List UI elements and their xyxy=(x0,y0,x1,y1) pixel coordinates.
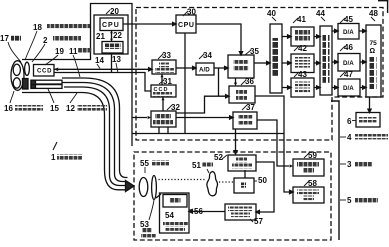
leader 11 xyxy=(73,55,80,77)
wire CPU30 to box35 top xyxy=(196,24,241,52)
svg-text:44: 44 xyxy=(316,9,325,18)
svg-text:14: 14 xyxy=(95,56,104,65)
box 35 digital processing xyxy=(228,55,254,78)
svg-text:45: 45 xyxy=(344,15,353,24)
cable bundle bottom elbow arcs xyxy=(110,170,127,186)
box 57 text xyxy=(228,207,252,212)
svg-text:D/A: D/A xyxy=(343,29,354,36)
arrow into 36 xyxy=(226,95,229,98)
box 37 text xyxy=(238,115,253,120)
box 50 lamp power xyxy=(234,178,254,193)
arrow into A/D xyxy=(193,66,196,69)
wire branch from AD bus down to 36 input xyxy=(218,68,220,96)
arrow into 32 left xyxy=(148,116,151,119)
leader 17 xyxy=(8,42,21,62)
insertion tube bottom wall xyxy=(22,93,126,190)
wires 41,42,43 to 44 xyxy=(314,37,317,88)
svg-text:13: 13 xyxy=(112,55,121,64)
box 58 mode change switch xyxy=(293,187,324,203)
cable 3 vertical line xyxy=(331,101,339,240)
rotating filter 53 xyxy=(152,176,157,200)
box 36 text xyxy=(236,89,247,94)
svg-text:D/A: D/A xyxy=(343,85,354,92)
page frame corner xyxy=(378,0,388,13)
dashed enclosure: signal processing unit 4 xyxy=(136,8,383,141)
dashed enclosure: light source unit 5 xyxy=(134,152,331,240)
box 37 light correction circuit xyxy=(233,112,257,129)
svg-text:12: 12 xyxy=(66,104,75,113)
svg-text:CPU: CPU xyxy=(102,22,120,29)
svg-text:22: 22 xyxy=(113,31,122,40)
svg-text:34: 34 xyxy=(203,51,212,60)
arrows into D/A xyxy=(335,29,338,89)
box 35 text xyxy=(234,59,249,64)
wire 32 to 31 xyxy=(162,97,164,111)
svg-text:20: 20 xyxy=(110,7,119,16)
wires D/A to 48 xyxy=(359,31,363,88)
wire 52 right loop to 57 xyxy=(256,162,274,212)
svg-text:48: 48 xyxy=(369,9,378,18)
wire 33 to A/D xyxy=(176,67,192,69)
box 43 text xyxy=(295,82,310,87)
arrow into CPU30 xyxy=(173,22,176,25)
wire 37 right joining bus xyxy=(257,120,289,166)
objective lens group xyxy=(25,62,30,75)
wire CPU21-memory22 xyxy=(111,31,113,42)
leader 19 xyxy=(45,55,58,65)
svg-text:53: 53 xyxy=(140,220,149,229)
box 31 CCD drive circuit xyxy=(151,85,176,97)
horizontal bus wire xyxy=(132,133,284,135)
arrow into 59 xyxy=(290,190,293,193)
leader 13 xyxy=(116,63,118,73)
wires 44 to D/A boxes xyxy=(332,31,335,88)
box 42 G frame memory xyxy=(291,54,314,73)
box 48 75ohm driver (vertical) xyxy=(366,25,381,97)
arrow into 35 xyxy=(239,52,242,55)
svg-text:19: 19 xyxy=(55,47,64,56)
svg-text:50: 50 xyxy=(258,176,267,185)
wire 14 CCD to 33 xyxy=(54,68,148,70)
box 50 text xyxy=(241,183,246,188)
svg-text:43: 43 xyxy=(298,70,307,79)
arrow into 56 xyxy=(189,210,192,213)
svg-text:55: 55 xyxy=(140,159,149,168)
svg-text:15: 15 xyxy=(50,104,59,113)
endoscope body outline xyxy=(22,4,132,147)
CCD box (19) xyxy=(34,65,55,77)
arrow into monitor xyxy=(368,109,371,112)
wire 32 bottom to bus xyxy=(159,127,168,134)
motor box text xyxy=(170,198,181,203)
svg-text:75: 75 xyxy=(370,40,378,47)
CPU U30 xyxy=(176,15,196,33)
lamp 51 xyxy=(207,172,217,196)
leader 15 xyxy=(48,89,54,103)
svg-text:58: 58 xyxy=(308,179,317,188)
svg-text:51: 51 xyxy=(192,161,201,170)
wire 37 down to aperture control 52 xyxy=(235,129,237,151)
motor to filter link xyxy=(156,194,161,198)
box 33 signal sampling circuit xyxy=(152,60,176,74)
arrow into 57 xyxy=(256,210,259,213)
box 32 reference signal generator xyxy=(151,111,176,127)
wire 33 down to 31 xyxy=(161,74,163,85)
arrows into 44 xyxy=(317,35,320,89)
box 20 endoscope connector unit xyxy=(94,15,128,54)
wire 48 down to monitor 6 xyxy=(369,97,371,109)
svg-text:6: 6 xyxy=(347,117,352,126)
wire 57 to 56 xyxy=(193,211,225,213)
wire 32 right to 36 and 37 xyxy=(132,96,229,117)
box 54 motor xyxy=(163,195,187,208)
svg-text:42: 42 xyxy=(298,44,307,53)
svg-text:21: 21 xyxy=(96,32,105,41)
box 34 A/D xyxy=(196,63,214,75)
box 46 D/A xyxy=(338,54,360,72)
svg-text:D/A: D/A xyxy=(343,60,354,67)
light guide exit wedge xyxy=(126,181,135,192)
box 44 vertical text xyxy=(323,34,330,84)
dotted wire lamp to 50 xyxy=(159,179,207,181)
wire 13 CCD drive xyxy=(54,73,151,92)
svg-text:32: 32 xyxy=(171,103,180,112)
svg-text:37: 37 xyxy=(246,103,255,112)
box 56 lower text xyxy=(163,221,188,226)
svg-text:54: 54 xyxy=(165,211,174,220)
svg-text:3: 3 xyxy=(347,160,352,169)
box 43 B frame memory xyxy=(291,78,314,97)
leader 16 xyxy=(10,91,14,103)
arrow into 35 left xyxy=(225,66,228,69)
svg-text:16: 16 xyxy=(4,104,13,113)
illumination lens 16 ellipse xyxy=(13,78,20,88)
box 41 text xyxy=(295,30,310,35)
objective lens 17 ellipse xyxy=(13,64,20,75)
box 32 text xyxy=(155,114,171,119)
box 59 text xyxy=(297,162,319,167)
box 52 text xyxy=(236,158,247,163)
svg-text:1: 1 xyxy=(51,153,56,162)
svg-text:11: 11 xyxy=(69,47,78,56)
box 45 D/A xyxy=(338,24,359,40)
wire bus down to switch 58 xyxy=(290,164,293,167)
box 33 text xyxy=(159,63,169,68)
leader 18 xyxy=(25,31,37,60)
svg-text:40: 40 xyxy=(267,9,276,18)
svg-text:17: 17 xyxy=(0,34,9,43)
condenser lens 55 xyxy=(139,178,148,197)
light guide prism xyxy=(23,79,29,90)
wire box20 down to wire13 xyxy=(111,54,113,73)
cable bundle verticals xyxy=(110,108,120,170)
arrows into 48 xyxy=(363,29,366,89)
arrow into 58 xyxy=(290,190,293,193)
svg-text:59: 59 xyxy=(308,151,317,160)
box 57 filter control circuit xyxy=(225,204,256,220)
leader 53 xyxy=(149,200,154,220)
box 42 text xyxy=(295,57,310,62)
wire 35 bottom to 36 top xyxy=(235,78,237,83)
svg-text:5: 5 xyxy=(347,196,352,205)
svg-text:41: 41 xyxy=(297,15,306,24)
box 6 monitor xyxy=(356,113,380,128)
arrow into 33 xyxy=(149,68,152,71)
memory 22 fake text xyxy=(105,44,121,49)
box 44 cursor circuit (vertical) xyxy=(320,26,332,95)
leader 1 tick xyxy=(53,142,57,150)
svg-text:18: 18 xyxy=(33,23,42,32)
box 58 text xyxy=(297,190,319,195)
wire CPU30 trunk down to bus xyxy=(184,33,186,134)
arrow into 37 xyxy=(230,116,233,119)
light guide rods xyxy=(31,80,62,84)
arrow into 40 xyxy=(267,61,270,64)
light guide rod dark end xyxy=(31,80,36,88)
svg-text:56: 56 xyxy=(194,207,203,216)
svg-text:30: 30 xyxy=(187,8,196,17)
wire CPU21 to CPU30 xyxy=(123,23,173,25)
cable bundle top horizontals xyxy=(62,78,84,87)
arrows into 41,42,43 xyxy=(288,35,291,89)
wire 36 right to switch 59 xyxy=(255,96,289,192)
arrow into 52 xyxy=(234,151,237,154)
svg-text:52: 52 xyxy=(214,153,223,162)
svg-text:A/D: A/D xyxy=(199,67,210,74)
box 52 aperture control circuit xyxy=(228,155,256,171)
svg-text:35: 35 xyxy=(250,47,259,56)
svg-text:33: 33 xyxy=(162,51,171,60)
svg-text:CPU: CPU xyxy=(178,22,195,29)
svg-text:4: 4 xyxy=(347,133,352,142)
box 40 vertical text xyxy=(273,38,280,76)
svg-text:36: 36 xyxy=(245,77,254,86)
svg-text:57: 57 xyxy=(254,217,263,226)
CPU U21 xyxy=(100,18,123,31)
wire 52 to 50 xyxy=(244,170,246,178)
box 47 D/A xyxy=(338,79,360,96)
memory U22 xyxy=(102,42,123,54)
leader 12 xyxy=(70,93,77,103)
svg-text:46: 46 xyxy=(344,43,353,52)
wire A/D to 35 xyxy=(214,67,224,69)
wire 35 to 40 xyxy=(254,62,266,64)
svg-text:47: 47 xyxy=(344,70,353,79)
svg-text:CCD: CCD xyxy=(37,69,52,75)
box 56 motor unit outer xyxy=(160,193,190,233)
cable bundle bottom horizontals xyxy=(120,178,128,186)
box 40 selector (vertical) xyxy=(270,24,282,93)
box 36 light measuring circuit xyxy=(229,86,255,103)
wires 40 to 41,42,43 xyxy=(282,37,288,88)
leader 14 xyxy=(97,64,100,69)
svg-text:31: 31 xyxy=(163,77,172,86)
cable bundle top elbow arcs xyxy=(82,78,120,110)
svg-text:Ω: Ω xyxy=(370,48,376,55)
monitor text xyxy=(359,117,377,122)
svg-text:2: 2 xyxy=(43,36,48,45)
endoscope distal end outer ellipse xyxy=(11,61,24,91)
box 41 R frame memory xyxy=(291,27,314,46)
box 59 brightness control switch xyxy=(293,159,324,176)
dotted lamp to 50 xyxy=(219,181,234,183)
leader 2 xyxy=(32,44,45,62)
